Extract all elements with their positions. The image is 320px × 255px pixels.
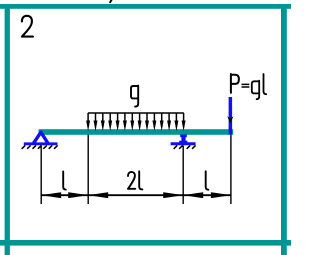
roller support B : bottom flare bbox=[179, 141, 187, 144]
letter l of P=ql bbox=[264, 74, 267, 94]
dim arrow left of segment l3 bbox=[183, 192, 203, 198]
frame left vertical border bbox=[5, 4, 10, 255]
dimension extension line at support A bbox=[40, 146, 42, 205]
roller support B : top flange bbox=[180, 135, 187, 138]
dimension line bbox=[41, 194, 231, 196]
dimension extension line at beam end bbox=[230, 135, 232, 204]
pin support A : hatching bbox=[22, 145, 58, 148]
distributed load q : top line bbox=[88, 112, 184, 114]
pin support A : ground line bbox=[24, 142, 58, 145]
frame bottom horizontal border bbox=[0, 240, 291, 246]
label q bbox=[131, 86, 138, 107]
stray tick mark at top edge bbox=[110, 0, 111, 2]
dim arrow right of segment 2l bbox=[163, 192, 183, 198]
dim label l (right span) bbox=[206, 171, 209, 189]
dim arrow right of segment l1 bbox=[68, 192, 88, 198]
roller support B : hatching bbox=[174, 145, 196, 148]
frame top horizontal border bbox=[0, 4, 291, 9]
equals sign bbox=[242, 84, 250, 87]
distributed load arrows (14) bbox=[86, 113, 90, 131]
roller support B : stem bbox=[181, 135, 185, 143]
point load P arrow shaft (blue) bbox=[229, 97, 233, 134]
dim arrow left of segment 2l bbox=[88, 192, 108, 198]
dim arrow left of segment l1 bbox=[41, 192, 61, 198]
point load P arrowhead (black) bbox=[227, 116, 233, 123]
letter P bbox=[231, 74, 239, 93]
dimension extension line at load start bbox=[87, 135, 89, 204]
dimension extension line at support B bbox=[182, 146, 184, 205]
pin support A : triangle bbox=[34, 132, 48, 143]
letter q of P=ql bbox=[252, 81, 259, 100]
frame right vertical border bbox=[281, 4, 287, 255]
dim arrow right of segment l3 bbox=[211, 192, 231, 198]
roller support B : ground line bbox=[171, 142, 196, 145]
numeral 2 (drawing number) bbox=[22, 16, 33, 37]
dim label 2l (middle span) bbox=[128, 171, 142, 189]
beam bbox=[39, 129, 234, 135]
dim label l (left span) bbox=[63, 172, 66, 190]
